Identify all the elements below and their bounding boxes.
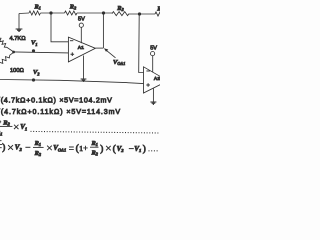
equals xyxy=(69,147,74,149)
svg-text:A2: A2 xyxy=(154,76,160,82)
svg-text:): ) xyxy=(100,143,103,153)
wire node N1 down to A1 inverting input xyxy=(51,13,68,42)
svg-text:R: R xyxy=(156,5,160,12)
svg-text:R2: R2 xyxy=(34,150,42,157)
wire node N2 down to A1 output xyxy=(102,13,104,48)
svg-text:R2: R2 xyxy=(2,120,10,127)
svg-text:R2: R2 xyxy=(91,150,99,157)
5V stem to A2 xyxy=(152,56,154,73)
wire V1 to A1 non-inverting input xyxy=(14,52,69,53)
ground below A1: bars xyxy=(81,79,87,81)
svg-text:R1: R1 xyxy=(34,140,41,147)
trailing dots xyxy=(149,150,158,152)
op-amp A1 plus sign xyxy=(71,52,75,56)
svg-text:R2: R2 xyxy=(69,4,76,11)
svg-text:V1: V1 xyxy=(31,40,38,47)
node N2 junction xyxy=(102,11,105,14)
5V stem to A1 xyxy=(80,27,82,43)
resistor R2 xyxy=(65,11,77,15)
svg-text:V2: V2 xyxy=(15,144,23,152)
svg-text:5V: 5V xyxy=(78,16,85,22)
arrowhead xyxy=(104,48,108,52)
wire ground to R1 xyxy=(19,12,29,15)
op-amp A1 minus sign xyxy=(70,40,73,42)
svg-text:(: ( xyxy=(113,144,116,154)
resistor R3 (labelled R2) xyxy=(112,12,129,16)
svg-text:A1: A1 xyxy=(78,45,85,51)
node N1 junction xyxy=(49,11,52,14)
left fraction fragment (clipped R1/R2) xyxy=(0,141,2,148)
svg-text:): ) xyxy=(143,144,146,154)
svg-text:5V: 5V xyxy=(150,46,157,52)
wire node N3 down to A2 inverting input xyxy=(139,14,144,73)
dotted leader line 1 xyxy=(31,131,161,133)
svg-text:V1: V1 xyxy=(134,145,141,153)
svg-text:V1: V1 xyxy=(20,123,27,131)
op-amp A1 xyxy=(68,37,95,62)
op-amp A2 plus sign xyxy=(146,83,150,87)
op-amp A2 (apex clipped at right edge) xyxy=(144,67,168,93)
wire R3 to node N3 xyxy=(129,13,155,15)
ground GND1 top-left xyxy=(16,14,23,32)
svg-text:): ) xyxy=(2,142,5,152)
svg-text:R1: R1 xyxy=(34,4,41,11)
ground below A2: bars xyxy=(150,102,156,104)
wire R1 to R2 xyxy=(41,12,65,14)
fraction bar xyxy=(0,125,12,127)
times V1 xyxy=(14,125,19,129)
node bridge junction xyxy=(12,51,15,54)
svg-text:100Ω: 100Ω xyxy=(10,68,24,74)
node N3 junction xyxy=(138,12,141,15)
bridge resistor 100 Ohm (diagonal, clipped) xyxy=(0,52,14,65)
times xyxy=(8,145,13,150)
svg-text:V2: V2 xyxy=(117,145,125,153)
5V supply terminal circle A1 xyxy=(79,23,83,27)
svg-text:R2: R2 xyxy=(116,5,123,12)
svg-text:/(4.7kΩ+0.11kΩ) ×5V=114.3mV: /(4.7kΩ+0.11kΩ) ×5V=114.3mV xyxy=(0,108,121,116)
svg-text:V2: V2 xyxy=(33,69,40,76)
node V2 dot xyxy=(32,78,35,81)
minus xyxy=(25,146,30,148)
times xyxy=(106,146,111,151)
annotation arrow to A1 output node xyxy=(106,50,115,58)
resistor R1 xyxy=(29,11,40,15)
5V supply terminal circle A2 xyxy=(151,52,155,56)
svg-text:1: 1 xyxy=(79,144,83,153)
svg-text:4.7KΩ: 4.7KΩ xyxy=(10,36,27,42)
times xyxy=(47,146,52,151)
svg-text:R1: R1 xyxy=(0,130,2,137)
minus xyxy=(129,148,134,150)
resistor R4 (labelled R1, clipped at right edge) xyxy=(155,12,162,16)
bridge resistor 4.7KOhm (diagonal, clipped) xyxy=(0,38,14,52)
wire A1 output xyxy=(95,47,103,49)
ground below A2: stem xyxy=(152,88,154,101)
plus sign fragment xyxy=(0,120,1,123)
op-amp A2 minus sign xyxy=(146,70,150,72)
svg-text:VOA1: VOA1 xyxy=(53,144,66,152)
wire R2 to node N2 xyxy=(77,12,112,14)
node V1 dot xyxy=(32,49,35,52)
svg-text:R1: R1 xyxy=(91,140,98,147)
wire V2 to A2 non-inverting input xyxy=(0,80,144,84)
svg-text:/(4.7kΩ+0.1kΩ) ×5V=104.2mV: /(4.7kΩ+0.1kΩ) ×5V=104.2mV xyxy=(0,96,113,104)
svg-text:VOA1: VOA1 xyxy=(113,59,125,66)
ground below A1: stem xyxy=(83,56,85,79)
